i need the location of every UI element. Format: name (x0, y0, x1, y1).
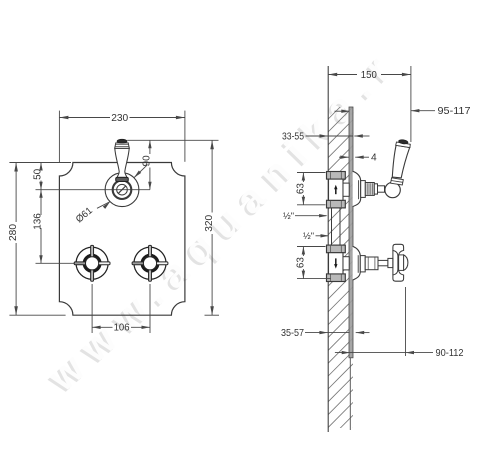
svg-text:136: 136 (33, 213, 44, 230)
svg-text:4: 4 (371, 153, 377, 164)
svg-text:280: 280 (8, 224, 19, 241)
svg-text:63: 63 (296, 183, 307, 194)
svg-text:63: 63 (296, 257, 307, 268)
svg-text:106: 106 (114, 323, 130, 334)
svg-text:90-112: 90-112 (436, 348, 464, 359)
svg-text:½": ½" (283, 211, 294, 221)
svg-text:95-117: 95-117 (438, 106, 471, 117)
svg-text:½": ½" (303, 231, 314, 241)
svg-text:33-55: 33-55 (282, 132, 304, 143)
svg-text:230: 230 (111, 113, 128, 124)
svg-text:90: 90 (141, 155, 152, 166)
svg-text:320: 320 (204, 214, 215, 231)
svg-text:150: 150 (361, 70, 377, 81)
svg-text:35-57: 35-57 (281, 328, 304, 339)
svg-text:50: 50 (33, 169, 44, 180)
